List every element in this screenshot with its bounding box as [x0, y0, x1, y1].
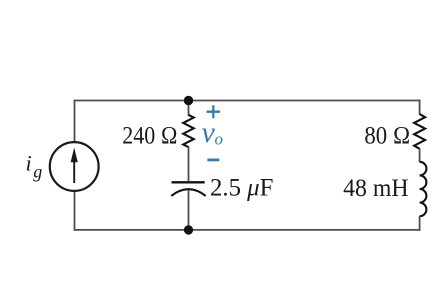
minus sign vo polarity [207, 158, 219, 161]
wire top [75, 100, 420, 102]
wire bottom [75, 229, 420, 231]
plus sign vo polarity [207, 105, 221, 118]
current source ig circle [50, 142, 99, 191]
wire right upper lead [419, 100, 421, 115]
wire resistor to capacitor [188, 147, 190, 182]
current source arrowhead [71, 148, 78, 163]
node top (dot) [184, 96, 193, 105]
current source arrow shaft [73, 159, 75, 183]
inductor L 48mH coil [420, 162, 427, 216]
svg-text:i: i [26, 150, 32, 175]
wire middle branch upper lead [188, 101, 190, 116]
svg-text:v: v [202, 116, 216, 149]
capacitor C curved plate [171, 189, 205, 196]
wire left lower [74, 191, 76, 231]
svg-text:240 Ω: 240 Ω [122, 123, 177, 150]
wire capacitor to bottom node [188, 191, 190, 230]
wire inductor to bottom [419, 216, 421, 231]
resistor R 240ohm zigzag [183, 115, 194, 147]
capacitor C top plate [172, 181, 205, 183]
node bottom (dot) [184, 225, 193, 234]
wire resistor to inductor [419, 148, 421, 162]
svg-text:80 Ω: 80 Ω [364, 123, 410, 150]
resistor 80ohm zigzag [414, 114, 425, 149]
svg-text:48 mH: 48 mH [343, 175, 409, 202]
svg-text:2.5 μF: 2.5 μF [210, 175, 273, 202]
wire left upper [74, 100, 76, 143]
svg-text:o: o [215, 130, 224, 149]
svg-text:g: g [33, 162, 42, 182]
